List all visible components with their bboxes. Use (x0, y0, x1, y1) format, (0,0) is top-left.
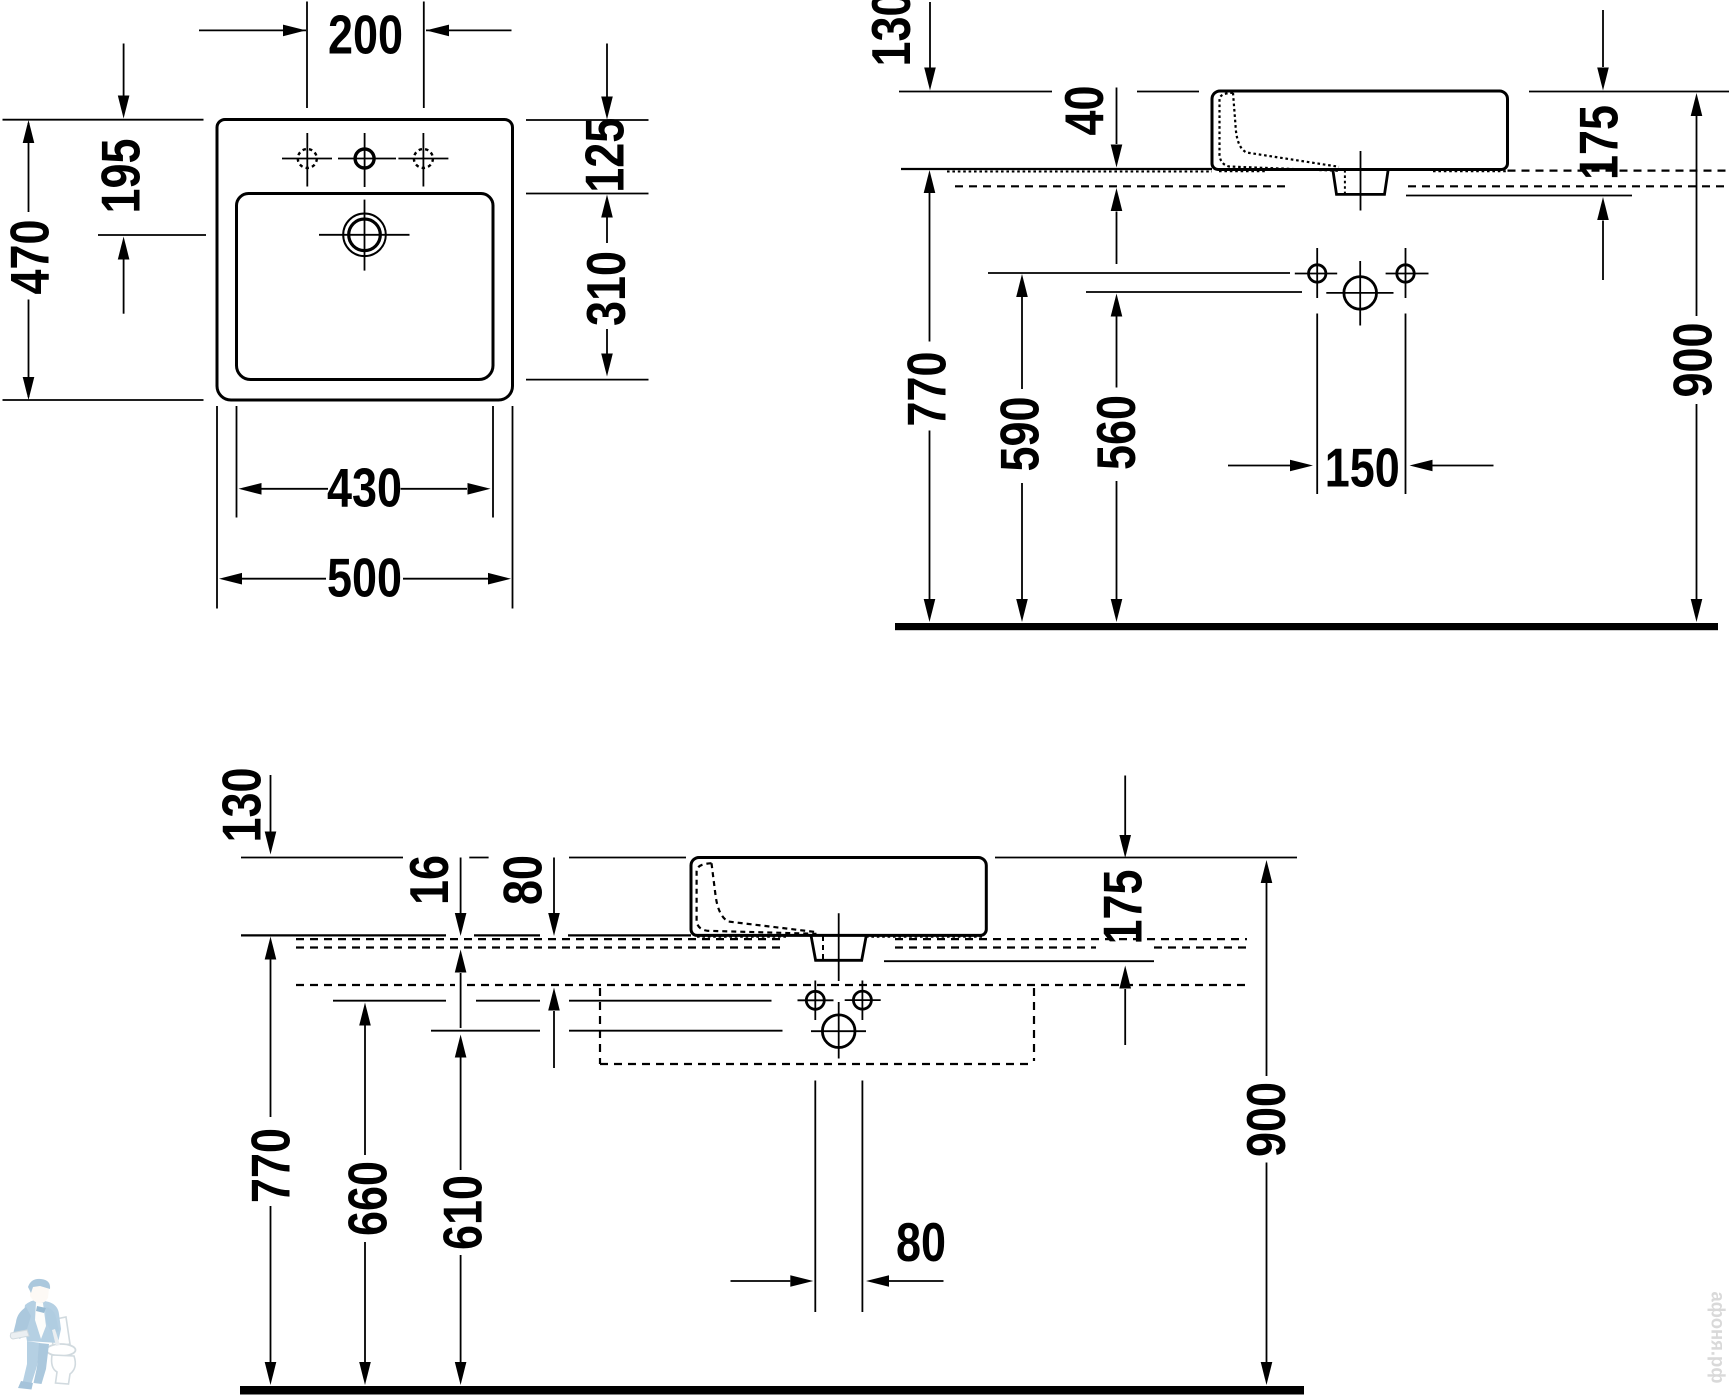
figure3 extension lines for 80 (815, 1081, 862, 1313)
figure3 right fixing hole (845, 981, 881, 1021)
dimension 16 line (455, 858, 467, 1029)
dimension label 175 (fig2) (1568, 105, 1630, 180)
figure2 right fixing hole (1386, 248, 1429, 298)
figure1 right faucet hole (dashed option) (398, 133, 448, 187)
figure3 cabinet dashed outline (600, 988, 1034, 1064)
figure2 countertop dotted line (947, 170, 1506, 172)
figure3 leader line supply hole (431, 1030, 783, 1032)
svg-text:150: 150 (1325, 437, 1400, 499)
figure1 extension line top edge right (526, 119, 649, 121)
svg-text:200: 200 (328, 4, 403, 66)
dimension 175 line (fig2) (1597, 10, 1609, 280)
dimension label 195 (90, 139, 152, 214)
dimension label 80 (top) (492, 855, 554, 905)
svg-text:900: 900 (1662, 323, 1724, 398)
dimension 80 arrows (bottom) (731, 1275, 944, 1287)
dimension label 770 (fig2) (896, 352, 958, 427)
figure3 floor line (240, 1386, 1304, 1395)
dimension 500 arrows (219, 573, 511, 585)
figure2 sink body (section) (1212, 91, 1508, 170)
figure3 left fixing hole (798, 981, 834, 1021)
svg-text:770: 770 (240, 1128, 302, 1203)
figure3 dashed line level 3 (296, 984, 1247, 986)
dimension 590 line (1016, 274, 1028, 622)
figure2 floor line (895, 623, 1718, 630)
dimension label 40 (1053, 86, 1115, 136)
svg-text:40: 40 (1053, 86, 1115, 136)
dimension label 770 (fig3) (240, 1128, 302, 1203)
svg-text:430: 430 (327, 457, 402, 519)
dimension 560 line (1111, 294, 1123, 623)
dimension 310 line and arrows (601, 195, 613, 377)
dimension label 16 (398, 855, 460, 905)
svg-text:500: 500 (327, 547, 402, 609)
dimension label 900 (fig2) (1662, 323, 1724, 398)
figure2 countertop dashed line right (1508, 170, 1730, 172)
watermark site text (1707, 1292, 1728, 1384)
figure2 supply hole (1326, 261, 1393, 326)
dimension label 500 (327, 547, 402, 609)
svg-text:16: 16 (398, 855, 460, 905)
dimension label 130 (fig3) (211, 768, 273, 843)
dimension label 430 (327, 457, 402, 519)
dimension label 125 (574, 118, 636, 193)
figure2 countertop line left (901, 168, 1212, 170)
dimension label 560 (1085, 395, 1147, 470)
dimension label 470 (0, 220, 61, 295)
figure3 sink body (front) (691, 858, 986, 936)
figure3 basin wall dashed (outer) (697, 863, 817, 934)
dimension 130 line (fig2) (924, 2, 936, 91)
figure3 top reference line (241, 857, 1297, 859)
dimension 900 line (fig2) (1691, 93, 1703, 622)
figure1 extension line top edge left (3, 119, 204, 121)
dimension 195 line and arrows (118, 44, 130, 314)
svg-text:590: 590 (989, 397, 1051, 472)
watermark plumber logo (10, 1279, 75, 1390)
figure1 extension line bottom edge left (3, 399, 204, 401)
dimension 150 arrows (1228, 460, 1494, 472)
svg-text:130: 130 (860, 0, 922, 67)
svg-text:афоня.рф: афоня.рф (1707, 1292, 1728, 1384)
figure1 basin inner rim (237, 194, 494, 380)
figure1 overflow hole (319, 200, 410, 271)
dimension label 310 (575, 251, 637, 326)
figure2 lower reference line right (1406, 195, 1632, 197)
figure3 leader line small holes (333, 1000, 772, 1002)
dimension 610 line (455, 1035, 467, 1386)
svg-text:560: 560 (1085, 395, 1147, 470)
figure2 lower dashed line (955, 185, 1729, 187)
dimension label 200 (328, 4, 403, 66)
svg-text:610: 610 (432, 1175, 494, 1250)
figure1 sink outer body (plan view) (217, 120, 513, 401)
figure3 dashed line level 2 (296, 946, 1247, 948)
figure1 extension lines for 430 (237, 406, 494, 518)
figure2 basin wall dashed (inner) (1233, 93, 1339, 167)
dimension 470 line and arrows (23, 120, 35, 400)
dimension label 80 (bottom) (896, 1211, 946, 1273)
figure1 extension line basin bottom right (526, 379, 649, 381)
svg-text:125: 125 (574, 118, 636, 193)
figure3 countertop dotted line (697, 936, 984, 938)
figure2 top reference line (899, 91, 1729, 93)
dimension 660 line (359, 1003, 371, 1386)
dimension 900 line (fig3) (1261, 860, 1273, 1385)
svg-text:195: 195 (90, 139, 152, 214)
figure3 basin wall dashed (inner) (712, 863, 816, 932)
dimension label 590 (989, 397, 1051, 472)
figure1 extension line overflow level (98, 234, 206, 236)
svg-text:470: 470 (0, 220, 61, 295)
figure3 drain outlet (811, 935, 866, 960)
svg-text:660: 660 (337, 1161, 399, 1236)
svg-text:175: 175 (1092, 870, 1154, 945)
figure2 left fixing hole (1295, 248, 1337, 298)
figure3 dashed line level 1 (296, 938, 1247, 940)
figure1 extension lines for 500 (217, 406, 513, 609)
dimension label 150 (1325, 437, 1400, 499)
figure1 centre faucet hole (338, 133, 396, 187)
dimension 430 arrows (239, 483, 491, 495)
figure3 drain centreline (838, 913, 840, 981)
dimension 200 arrows (199, 25, 512, 37)
dimension label 610 (432, 1175, 494, 1250)
figure2 drain outlet (1333, 170, 1388, 195)
figure3 supply hole (811, 1002, 866, 1059)
dimension label 900 (fig3) (1235, 1082, 1297, 1157)
dimension 175 line (fig3) (1119, 776, 1131, 1046)
dimension 40 line (1111, 88, 1123, 265)
figure2 basin wall dashed (outer) (1220, 93, 1341, 171)
svg-text:130: 130 (211, 768, 273, 843)
figure3 countertop line left (241, 934, 691, 936)
svg-text:80: 80 (492, 855, 554, 905)
figure1 left faucet hole (dashed option) (282, 133, 332, 187)
dimension 130 line (fig3) (265, 775, 277, 855)
dimension 770 line (fig2) (924, 170, 936, 622)
figure1 extension line basin top right (526, 193, 649, 195)
dimension 80 line (top) (548, 858, 560, 1069)
figure2 leader line 560 level (1086, 291, 1302, 293)
svg-text:310: 310 (575, 251, 637, 326)
svg-text:900: 900 (1235, 1082, 1297, 1157)
figure1 extension lines for 200 (307, 2, 424, 109)
figure3 lower reference line right (884, 960, 1154, 962)
svg-text:770: 770 (896, 352, 958, 427)
dimension 125 line and arrows (601, 44, 613, 120)
figure2 leader line 590 level (988, 272, 1290, 274)
dimension label 130 (fig2) (860, 0, 922, 67)
dimension label 175 (fig3) (1092, 870, 1154, 945)
figure2 drain centreline (1360, 151, 1362, 211)
svg-text:175: 175 (1568, 105, 1630, 180)
dimension label 660 (337, 1161, 399, 1236)
svg-text:80: 80 (896, 1211, 946, 1273)
dimension 770 line (fig3) (265, 937, 277, 1386)
figure2 extension lines for 150 (1317, 314, 1405, 495)
